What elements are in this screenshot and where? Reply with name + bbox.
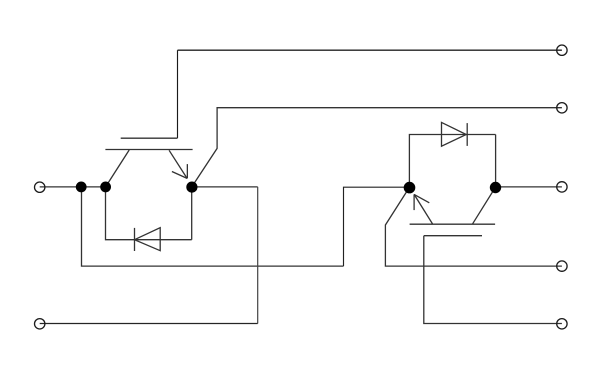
terminal: auxiliary E2 sense bbox=[557, 261, 567, 271]
transistor Q2 (IGBT) body bar bbox=[410, 223, 496, 225]
terminal: left collector (C1) bbox=[35, 182, 45, 192]
transistor Q1 (IGBT) collector lead bbox=[106, 150, 130, 187]
node E junction dot bbox=[490, 182, 501, 193]
terminal: collector C2 bbox=[557, 182, 567, 192]
node C junction dot bbox=[186, 182, 197, 193]
transistor Q1 (IGBT) emitter lead with arrowhead bbox=[169, 150, 187, 178]
terminal: gate G1 bbox=[557, 45, 567, 55]
wire: node A down, across bottom, up to node D bbox=[82, 187, 344, 266]
node A junction dot bbox=[76, 182, 87, 193]
wire: node C right, down, across to bottom-left emitter terminal bbox=[192, 186, 258, 188]
wire: left collector terminal rail to node B bbox=[40, 186, 106, 188]
diode DF2 triangle bbox=[442, 122, 467, 146]
wire: IGBT Q2 gate down to terminal 5 bbox=[424, 236, 562, 324]
transistor Q1 (IGBT) body bar bbox=[105, 149, 192, 151]
node D junction dot bbox=[404, 182, 416, 194]
wire: diode DF1 cathode rail up to node C bbox=[191, 187, 193, 240]
wire: node C slant up to auxiliary terminal 2 bbox=[192, 108, 562, 187]
wire: node E to collector terminal 3 bbox=[496, 186, 562, 188]
transistor Q2 (IGBT) collector lead bbox=[472, 187, 495, 224]
wire: node D slant down to auxiliary terminal 4 bbox=[385, 187, 562, 266]
terminal: gate G2 bbox=[557, 319, 567, 329]
wire: node B down to diode DF1 anode rail bbox=[106, 187, 192, 240]
diode DF1 cathode bar bbox=[134, 228, 136, 251]
wire: node D up to diode DF2 anode rail bbox=[409, 135, 495, 188]
wire: IGBT Q1 gate up to terminal 1 bbox=[177, 50, 179, 138]
diode DF2 cathode bar bbox=[466, 123, 468, 146]
transistor Q1 (IGBT) gate bar bbox=[121, 137, 178, 139]
terminal: auxiliary E1 sense bbox=[557, 103, 567, 113]
transistor Q2 (IGBT) emitter lead with arrowhead bbox=[414, 194, 433, 224]
transistor Q2 (IGBT) gate bar bbox=[424, 235, 482, 237]
diode DF1 triangle bbox=[135, 228, 161, 251]
terminal: left auxiliary emitter (E1) bbox=[35, 319, 45, 329]
node B junction dot bbox=[100, 182, 111, 193]
wire: diode DF2 cathode rail down to node E bbox=[495, 135, 497, 188]
